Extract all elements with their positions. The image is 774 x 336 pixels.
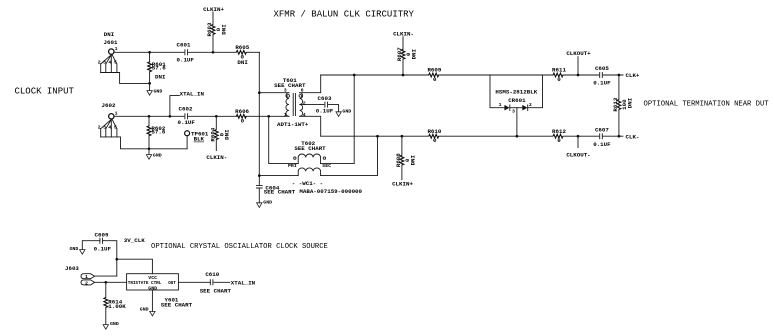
junction bus to T601 pin3 <box>258 91 261 94</box>
ground at R614 <box>103 321 119 329</box>
svg-text:57.6: 57.6 <box>151 128 165 135</box>
wire R606 to T601 pin 1 <box>245 115 289 117</box>
svg-text:XFMR / BALUN CLK CIRCUITRY: XFMR / BALUN CLK CIRCUITRY <box>274 10 415 20</box>
svg-text:GND: GND <box>140 306 149 312</box>
svg-text:C602: C602 <box>179 106 193 113</box>
svg-text:0: 0 <box>557 76 561 83</box>
svg-text:J602: J602 <box>102 102 116 109</box>
svg-text:C603: C603 <box>318 95 332 102</box>
connector J601 <box>98 31 150 83</box>
svg-text:HSMS-2812BLK: HSMS-2812BLK <box>495 89 537 96</box>
wire R605 to bus <box>246 51 259 53</box>
capacitor C604 SEE CHART <box>256 176 296 203</box>
svg-text:J603: J603 <box>65 265 79 272</box>
ground at C604 <box>257 199 273 207</box>
svg-text:3V_CLK: 3V_CLK <box>124 237 145 244</box>
wire top rail <box>321 74 623 76</box>
svg-text:CR601: CR601 <box>508 97 526 104</box>
wire drop from row to T602 primary top <box>269 116 299 163</box>
wire bus to T601 pin 3 <box>259 92 289 94</box>
svg-text:R604: R604 <box>209 127 216 141</box>
svg-text:GND: GND <box>342 108 351 114</box>
wire C602 to R606 <box>189 115 238 117</box>
connector J603 <box>65 265 95 286</box>
resistor R612 0 <box>552 128 566 144</box>
ground at Y601 <box>140 306 155 316</box>
svg-text:MABA-007159-000000: MABA-007159-000000 <box>299 188 362 195</box>
capacitor C603 0.1UF <box>316 95 334 114</box>
wire C603 to gnd <box>329 105 339 112</box>
svg-text:2: 2 <box>85 280 88 286</box>
junction at R601 top <box>148 51 151 54</box>
svg-text:GND: GND <box>154 88 163 94</box>
junction R614 <box>104 281 107 284</box>
svg-text:CLKIN-: CLKIN- <box>206 154 227 161</box>
wire J603 pin2 to Y601 <box>95 281 127 283</box>
junction CLKOUT- <box>577 135 580 138</box>
junction R607 on top rail <box>402 74 405 77</box>
svg-text:1.00K: 1.00K <box>108 303 126 310</box>
diode CR601-B <box>510 102 532 114</box>
test point TP601 BLK <box>185 130 209 148</box>
svg-text:DNI: DNI <box>237 59 248 66</box>
svg-text:3: 3 <box>284 88 287 94</box>
net label XTAL_IN at J602 <box>170 90 205 116</box>
svg-text:J601: J601 <box>104 39 118 46</box>
resistor R602 57.6 <box>147 116 166 149</box>
resistor R605 0 DNI <box>235 44 249 66</box>
wire diode center tap to bottom rail <box>516 108 518 137</box>
svg-text:R603: R603 <box>206 22 213 36</box>
capacitor C601 0.1UF <box>177 42 195 64</box>
junction T602 drop on row <box>267 115 270 118</box>
wire J603 pin1 to 3V_CLK <box>95 275 117 277</box>
ground at J601 <box>147 83 162 95</box>
wire C609 to J603 pin1 and VCC <box>103 241 117 276</box>
svg-text:0.1UF: 0.1UF <box>593 80 611 87</box>
svg-text:- -WC1- -: - -WC1- - <box>292 180 323 187</box>
wire T602 bottom-right up to bottom rail <box>321 136 378 175</box>
resistor R603 0 DNI <box>206 12 227 52</box>
svg-text:DNI: DNI <box>220 24 227 35</box>
transformer T601 ADT1-1WT+ <box>274 77 309 128</box>
svg-text:2: 2 <box>98 124 101 130</box>
svg-text:XTAL_IN: XTAL_IN <box>231 280 256 287</box>
junction bus to T602 bottom <box>258 174 261 177</box>
wire bus vertical <box>258 52 260 175</box>
svg-text:CLKIN+: CLKIN+ <box>203 6 224 13</box>
svg-text:4: 4 <box>303 112 306 118</box>
wire bus to T602 bottom-left <box>259 175 298 177</box>
resistor R608 0 DNI <box>395 136 416 180</box>
svg-text:OPTIONAL CRYSTAL OSCIALLATOR C: OPTIONAL CRYSTAL OSCIALLATOR CLOCK SOURC… <box>151 243 328 251</box>
wire J602 to C602 <box>114 115 184 117</box>
svg-text:PRI: PRI <box>288 163 297 169</box>
svg-text:DNI: DNI <box>410 48 417 59</box>
resistor R613 100 DNI <box>612 75 633 136</box>
svg-text:CLKOUT-: CLKOUT- <box>566 152 590 159</box>
capacitor C602 0.1UF <box>178 106 196 126</box>
net CLKOUT+ <box>566 50 591 75</box>
svg-text:OPTIONAL TERMINATION NEAR DUT: OPTIONAL TERMINATION NEAR DUT <box>644 101 770 109</box>
junction CLKOUT+ <box>577 74 580 77</box>
junction XTAL_IN drop <box>169 115 172 118</box>
svg-text:DNI: DNI <box>224 129 231 140</box>
svg-text:DNI: DNI <box>626 97 633 108</box>
svg-text:CLKOUT+: CLKOUT+ <box>566 50 591 57</box>
svg-text:CLKIN+: CLKIN+ <box>392 181 413 188</box>
junction T602 sec on top rail <box>353 74 356 77</box>
resistor R609 0 <box>427 67 441 83</box>
svg-text:57.6: 57.6 <box>152 64 166 71</box>
wire bottom rail <box>321 135 623 137</box>
svg-text:GND: GND <box>153 152 162 158</box>
diode box CR601 HSMS-2812BLK <box>490 75 543 108</box>
svg-text:0: 0 <box>241 117 245 124</box>
junction at R603 <box>212 51 215 54</box>
svg-text:DNI: DNI <box>104 31 115 38</box>
ground at C609 <box>70 241 100 255</box>
svg-text:2: 2 <box>98 60 101 66</box>
svg-text:R607: R607 <box>396 47 403 61</box>
junction R608 on bottom rail <box>401 135 404 138</box>
svg-text:GND: GND <box>110 321 119 327</box>
junction VCC branch <box>115 258 118 261</box>
svg-text:3: 3 <box>103 60 106 66</box>
capacitor C610 SEE CHART <box>200 271 232 295</box>
svg-text:0.1UF: 0.1UF <box>94 245 112 252</box>
svg-text:SEE CHART: SEE CHART <box>200 288 232 295</box>
svg-text:DNI: DNI <box>155 74 166 81</box>
svg-text:0: 0 <box>433 76 437 83</box>
svg-text:GND: GND <box>263 199 272 205</box>
svg-text:1: 1 <box>115 111 118 117</box>
net CLKOUT- <box>566 136 590 158</box>
svg-text:SEE CHART: SEE CHART <box>161 302 193 309</box>
svg-text:CLK-: CLK- <box>626 133 640 140</box>
junction diode tap <box>516 135 519 138</box>
resistor R606 0 <box>235 108 249 125</box>
svg-text:C601: C601 <box>177 42 191 49</box>
wire C601 to R605 <box>189 51 237 53</box>
svg-text:1: 1 <box>499 102 502 108</box>
svg-text:CLKIN-: CLKIN- <box>393 30 414 37</box>
junction at J601 gnd bus <box>148 82 151 85</box>
resistor R607 0 DNI <box>396 37 417 75</box>
svg-text:SEE CHART: SEE CHART <box>264 189 296 196</box>
svg-text:0.1UF: 0.1UF <box>593 141 611 148</box>
resistor R601 57.6 DNI <box>148 52 167 83</box>
wire T601 pin4 down to bottom rail <box>300 116 321 136</box>
svg-text:C605: C605 <box>595 65 609 72</box>
junction at R604 <box>215 115 218 118</box>
svg-text:3: 3 <box>512 109 515 115</box>
svg-text:CLK+: CLK+ <box>626 72 640 79</box>
resistor R614 1.00K <box>104 282 126 324</box>
ground at J602 <box>146 149 161 159</box>
svg-text:CLOCK INPUT: CLOCK INPUT <box>15 87 75 97</box>
wire T601 pin2 to C603 <box>300 104 324 106</box>
svg-text:C607: C607 <box>595 127 609 134</box>
svg-text:0: 0 <box>557 137 561 144</box>
svg-text:0.1UF: 0.1UF <box>177 57 195 64</box>
svg-text:BLK: BLK <box>194 136 205 143</box>
svg-text:1: 1 <box>115 46 118 52</box>
svg-text:0: 0 <box>433 137 437 144</box>
junction at R602 top <box>148 115 151 118</box>
resistor R611 0 <box>552 67 566 83</box>
oscillator Y601 <box>127 274 193 309</box>
svg-text:0.1UF: 0.1UF <box>316 107 334 114</box>
junction CLK- <box>618 135 621 138</box>
svg-text:1: 1 <box>85 274 88 280</box>
svg-text:4: 4 <box>108 124 111 130</box>
svg-text:2: 2 <box>303 101 306 107</box>
wire J601 to C601 <box>114 51 184 53</box>
resistor R610 0 <box>427 128 441 144</box>
wire Y601 gnd <box>151 290 153 311</box>
svg-text:0.1UF: 0.1UF <box>178 119 196 126</box>
svg-text:R613: R613 <box>612 97 619 111</box>
connector J602 <box>98 102 187 149</box>
svg-text:1: 1 <box>284 112 287 118</box>
svg-text:GND: GND <box>70 246 79 252</box>
capacitor C607 0.1UF <box>593 127 611 149</box>
transformer T602 MABA-007159-000000 <box>288 140 363 195</box>
svg-text:R608: R608 <box>395 153 402 167</box>
svg-text:2: 2 <box>529 102 532 108</box>
diode CR601-A <box>499 102 510 110</box>
svg-text:C610: C610 <box>205 271 219 278</box>
capacitor C609 0.1UF <box>94 231 112 252</box>
junction at J602 gnd bus <box>148 147 151 150</box>
svg-text:ADT1-1WT+: ADT1-1WT+ <box>277 121 309 128</box>
junction T602 drop on bottom rail <box>376 135 379 138</box>
wire T602 sec top to top rail <box>321 75 355 164</box>
svg-text:SEE CHART: SEE CHART <box>294 145 326 152</box>
svg-text:C609: C609 <box>95 231 109 238</box>
svg-text:DNI: DNI <box>409 154 416 165</box>
svg-text:XTAL_IN: XTAL_IN <box>180 90 205 97</box>
wire Y601 OUT to C610 <box>178 281 210 283</box>
junction CLK+ <box>618 74 621 77</box>
ground at C603 <box>336 108 351 116</box>
resistor R604 0 DNI <box>209 116 230 150</box>
svg-text:5: 5 <box>114 124 117 130</box>
wire C610 to XTAL_IN <box>214 281 230 283</box>
wire T601 pin6 up to top rail <box>300 75 321 93</box>
svg-text:5: 5 <box>114 60 117 66</box>
svg-text:3: 3 <box>103 124 106 130</box>
svg-text:4: 4 <box>108 60 111 66</box>
wire branch to Y601 VCC <box>117 259 153 274</box>
svg-text:OUT: OUT <box>168 281 176 286</box>
capacitor C605 0.1UF <box>593 65 611 86</box>
